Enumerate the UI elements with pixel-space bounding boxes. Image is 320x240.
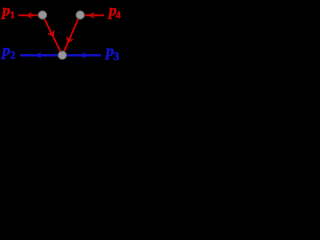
wire arrow from place label p3 to node N3 — [62, 52, 101, 59]
label p1 — [0, 2, 15, 21]
wire arrow from node N1 to place label p1 — [18, 12, 42, 19]
node N3 (bottom grey circle) — [58, 51, 66, 59]
wire arrow from node N2 down to node N3 (right leg) — [62, 15, 80, 55]
label p2 — [0, 42, 15, 61]
svg-text:p: p — [0, 2, 10, 19]
node N2 (top-right grey circle) — [76, 11, 84, 19]
svg-text:3: 3 — [113, 49, 119, 63]
wire arrow from place label p4 to node N2 — [80, 12, 104, 19]
svg-text:1: 1 — [10, 11, 15, 21]
wire arrow from node N1 down to node N3 (left leg) — [43, 15, 63, 55]
label p4 — [107, 2, 121, 20]
wire arrow from node N3 to place label p2 — [20, 52, 62, 59]
node N1 (top-left grey circle) — [38, 11, 46, 19]
svg-text:4: 4 — [116, 11, 121, 21]
label p3 — [104, 43, 119, 63]
svg-text:2: 2 — [10, 50, 15, 61]
svg-text:p: p — [0, 42, 10, 59]
